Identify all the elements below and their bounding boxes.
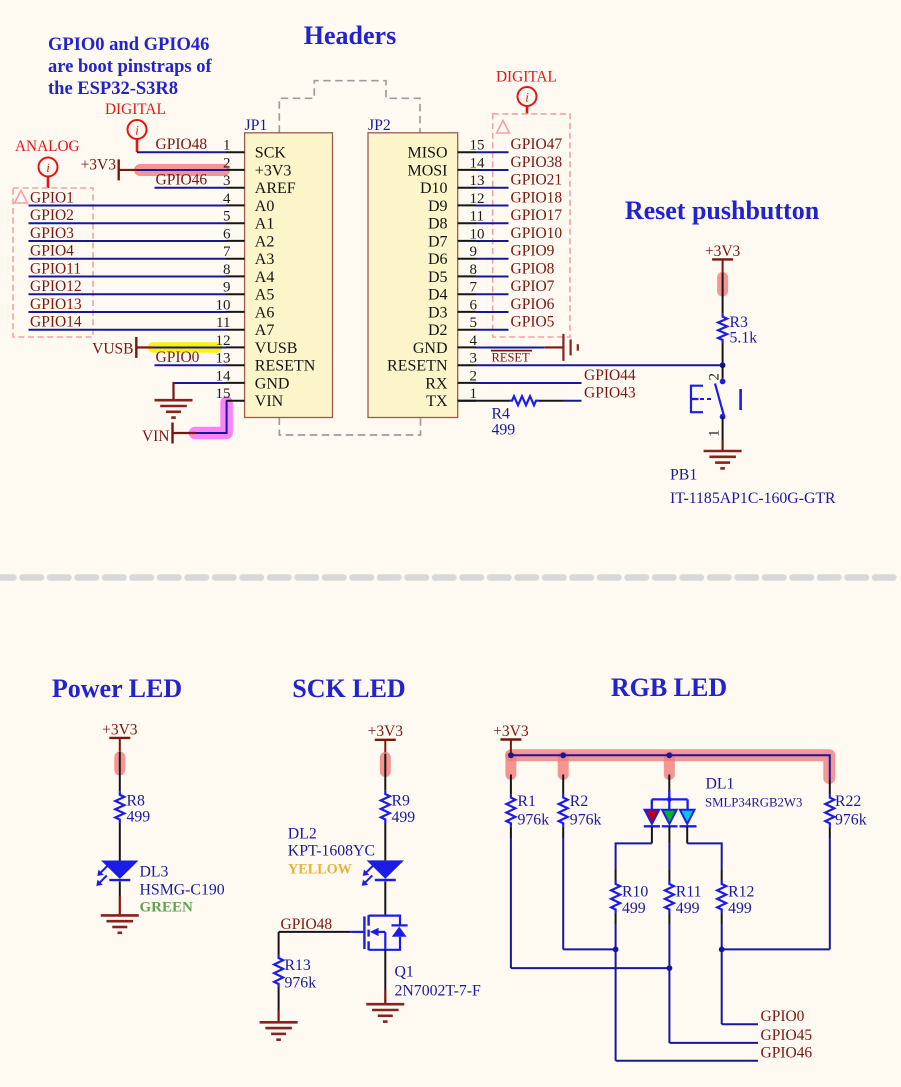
wire +3V3 to R9 — [384, 754, 386, 791]
svg-text:TX: TX — [426, 393, 448, 410]
wire green cathode to R11 — [668, 843, 670, 870]
svg-text:A3: A3 — [255, 251, 275, 268]
svg-text:976k: 976k — [518, 812, 550, 829]
wire R3 to junction — [722, 344, 724, 366]
svg-text:GPIO18: GPIO18 — [511, 189, 563, 206]
resistor R4 — [509, 396, 539, 405]
svg-text:2: 2 — [470, 368, 478, 384]
wire GPIO8 from JP2 pin8 — [476, 275, 509, 277]
svg-text:+3V3: +3V3 — [81, 156, 117, 173]
svg-text:Reset pushbutton: Reset pushbutton — [625, 196, 820, 225]
svg-text:GPIO2: GPIO2 — [30, 207, 74, 224]
svg-text:GPIO12: GPIO12 — [30, 278, 82, 295]
svg-text:A1: A1 — [255, 216, 275, 233]
wire ground stub dark red right — [545, 346, 563, 348]
svg-text:GPIO1: GPIO1 — [30, 189, 74, 206]
highlight yellow on VUSB wire pin12 JP1 — [153, 342, 217, 353]
svg-text:RESETN: RESETN — [255, 358, 316, 375]
wire R8 to DL3 — [119, 823, 121, 861]
svg-text:12: 12 — [470, 191, 485, 207]
svg-text:GPIO7: GPIO7 — [511, 278, 555, 295]
highlight pink on +3V3 stub power led — [114, 757, 125, 770]
svg-text:RGB LED: RGB LED — [611, 673, 727, 702]
wire GPIO5 from JP2 pin5 — [476, 329, 509, 331]
svg-text:VUSB: VUSB — [92, 340, 133, 357]
svg-text:A0: A0 — [255, 198, 275, 215]
wire GPIO44 from JP2 pin2 — [476, 382, 582, 384]
wire R10 down to GPIO46 row — [615, 924, 617, 1061]
svg-text:GPIO48: GPIO48 — [156, 136, 208, 153]
svg-text:GPIO4: GPIO4 — [30, 243, 74, 260]
wire junction to button pin2 — [722, 365, 724, 378]
wire top pin R10 — [615, 870, 617, 881]
svg-text:15: 15 — [216, 386, 231, 402]
junction R11/R1 node — [667, 965, 673, 971]
svg-text:D6: D6 — [428, 251, 448, 268]
wire blue cathode to R12 — [687, 843, 722, 870]
svg-text:GPIO48: GPIO48 — [281, 916, 333, 933]
wire R1 bottom pin — [510, 827, 512, 838]
JP2 pin names — [387, 145, 448, 411]
pink triangle marker left — [15, 191, 28, 204]
wire GPIO48 down to R13 — [278, 932, 280, 955]
wire R2 bottom pin — [562, 827, 564, 838]
svg-text:R4: R4 — [492, 406, 511, 423]
pink dashed box DIGITAL group — [493, 114, 570, 337]
svg-text:A2: A2 — [255, 233, 275, 250]
svg-text:JP2: JP2 — [368, 117, 391, 134]
svg-text:12: 12 — [216, 333, 231, 349]
svg-text:GPIO47: GPIO47 — [511, 136, 563, 153]
svg-text:KPT-1608YC: KPT-1608YC — [288, 843, 375, 860]
svg-text:RESET: RESET — [492, 351, 531, 365]
svg-text:GPIO0 and GPIO46: GPIO0 and GPIO46 — [48, 35, 209, 55]
wire R22 to R12 node — [722, 948, 830, 950]
section separator dashed line — [0, 574, 901, 581]
wire to ground dark red r13 — [278, 1010, 280, 1022]
svg-text:MOSI: MOSI — [407, 162, 447, 179]
svg-text:GPIO0: GPIO0 — [761, 1008, 805, 1025]
wire GPIO6 from JP2 pin6 — [476, 311, 509, 313]
wire +3V3 to R3 — [722, 273, 724, 313]
svg-text:VUSB: VUSB — [255, 340, 298, 357]
wire R1 horizontal to R11 node — [511, 967, 670, 969]
svg-text:RX: RX — [425, 375, 448, 392]
junction node R3/RESET/button — [720, 362, 726, 368]
wire R22 down to node — [829, 838, 831, 949]
wire GPIO46 horizontal — [616, 1060, 758, 1062]
wire DL1 green cathode stub — [668, 826, 670, 843]
ground symbol below Q1 — [366, 1003, 404, 1006]
highlight pink on +3V3 bus rgb — [511, 755, 829, 778]
wire GPIO4 to JP1 pin7 — [29, 258, 227, 260]
JP1 pin names — [255, 145, 316, 411]
resistor R9 — [381, 791, 390, 823]
svg-text:AREF: AREF — [255, 180, 296, 197]
wire DL1 blue cathode stub — [686, 826, 688, 843]
highlight pink stub R2 — [558, 757, 569, 775]
resistor R2 — [559, 794, 568, 827]
svg-text:Headers: Headers — [304, 21, 396, 50]
svg-text:MISO: MISO — [407, 145, 447, 162]
wire +3V3 to R8 — [119, 752, 121, 791]
svg-text:GPIO46: GPIO46 — [761, 1045, 813, 1062]
svg-text:HSMG-C190: HSMG-C190 — [140, 882, 225, 899]
svg-text:+3V3: +3V3 — [102, 721, 138, 738]
wire GPIO45 horizontal — [669, 1042, 758, 1044]
wire RESET net JP2 pin3 to pushbutton junction — [476, 364, 723, 366]
svg-text:Power LED: Power LED — [52, 674, 182, 703]
svg-text:GPIO38: GPIO38 — [511, 154, 563, 171]
svg-text:5.1k: 5.1k — [730, 330, 758, 347]
svg-text:A4: A4 — [255, 269, 275, 286]
wire GPIO48 to JP1 pin1 — [137, 151, 226, 153]
svg-text:GPIO3: GPIO3 — [30, 225, 74, 242]
svg-text:A6: A6 — [255, 304, 275, 321]
resistor R12 — [717, 881, 726, 913]
svg-text:R22: R22 — [835, 793, 861, 810]
svg-text:976k: 976k — [835, 812, 867, 829]
wire R22 bottom pin — [829, 827, 831, 838]
svg-text:IT-1185AP1C-160G-GTR: IT-1185AP1C-160G-GTR — [670, 490, 836, 507]
callout ANALOG — [15, 138, 80, 188]
svg-text:499: 499 — [127, 809, 151, 826]
svg-text:5: 5 — [470, 315, 478, 331]
wire DL2 cathode to Q1 drain — [384, 881, 386, 915]
svg-text:GND: GND — [413, 340, 448, 357]
svg-text:GPIO6: GPIO6 — [511, 296, 555, 313]
svg-text:SCK: SCK — [255, 145, 287, 162]
svg-text:DIGITAL: DIGITAL — [105, 101, 166, 118]
svg-text:GPIO21: GPIO21 — [511, 172, 563, 189]
callout DIGITAL left — [105, 101, 166, 152]
LED DL2 — [367, 860, 404, 878]
wire GPIO48 to Q1 gate — [279, 931, 351, 933]
wire R11 down to GPIO45 row — [668, 924, 670, 1043]
wire GPIO7 from JP2 pin7 — [476, 293, 509, 295]
svg-text:GPIO5: GPIO5 — [511, 314, 555, 331]
svg-text:GPIO11: GPIO11 — [30, 260, 81, 277]
svg-text:R3: R3 — [730, 314, 749, 331]
svg-text:D5: D5 — [428, 269, 448, 286]
highlight pink on +3V3 wire pin2 JP1 — [140, 164, 224, 176]
wire R2 to R10 node — [563, 948, 615, 950]
wire GPIO43 — [564, 400, 582, 402]
wire GPIO38 from JP2 pin14 — [476, 169, 509, 171]
svg-text:8: 8 — [470, 262, 478, 278]
callout DIGITAL right — [496, 69, 557, 114]
resistor R11 — [665, 881, 674, 913]
svg-text:14: 14 — [216, 368, 232, 384]
ground symbol below JP1 pin14 — [155, 399, 193, 402]
svg-text:GPIO10: GPIO10 — [511, 225, 563, 242]
svg-text:R2: R2 — [570, 793, 589, 810]
junction DL1 anode — [667, 797, 672, 802]
wire bottom pin R11 — [668, 913, 670, 924]
wire GPIO0 horizontal — [722, 1023, 758, 1025]
svg-text:1: 1 — [707, 430, 723, 438]
resistor R13 — [274, 955, 283, 988]
svg-text:SMLP34RGB2W3: SMLP34RGB2W3 — [705, 796, 802, 810]
svg-text:R8: R8 — [127, 793, 146, 810]
pink dashed box ANALOG group — [13, 188, 93, 337]
wire GPIO11 to JP1 pin8 — [29, 275, 227, 277]
wire to ground dark red q1 — [384, 990, 386, 1004]
LED DL3 — [101, 861, 138, 879]
wire red cathode to R10 — [616, 843, 652, 870]
svg-text:D7: D7 — [428, 233, 448, 250]
svg-text:2: 2 — [707, 373, 723, 381]
svg-text:i: i — [46, 160, 50, 175]
connector JP2 body — [368, 133, 458, 418]
wire TX black segment to R4 — [458, 400, 509, 402]
svg-text:A5: A5 — [255, 287, 275, 304]
wire R13 to ground — [278, 988, 280, 1011]
wire VUSB to JP1 pin12 — [152, 346, 226, 348]
JP2 pin numbers 15-1 — [470, 138, 486, 403]
resistor R10 — [611, 881, 620, 913]
svg-text:PB1: PB1 — [670, 467, 697, 484]
svg-text:VIN: VIN — [142, 428, 170, 445]
wire +3V3 to JP1 pin2 — [137, 169, 226, 171]
svg-text:499: 499 — [728, 900, 752, 917]
junction bus R2 — [560, 752, 566, 758]
wire DL3 cathode down — [119, 882, 121, 897]
wire bus to R2 — [562, 775, 564, 795]
JP1 pin numbers 1-15 — [216, 138, 232, 403]
svg-text:the ESP32-S3R8: the ESP32-S3R8 — [48, 79, 178, 99]
svg-text:i: i — [525, 90, 529, 105]
LED DL1 blue element — [680, 810, 695, 824]
svg-text:GPIO14: GPIO14 — [30, 314, 82, 331]
wire JP2 pin4 GND — [476, 346, 545, 348]
svg-text:DL2: DL2 — [288, 826, 317, 843]
svg-text:D3: D3 — [428, 304, 448, 321]
connector JP1 body — [245, 133, 333, 418]
svg-text:RESETN: RESETN — [387, 358, 448, 375]
wire GPIO17 from JP2 pin11 — [476, 222, 509, 224]
pink triangle marker right — [497, 121, 510, 134]
wire +3V3 stub dark red — [119, 169, 137, 171]
wire top pin R11 — [668, 870, 670, 881]
svg-text:GPIO8: GPIO8 — [511, 260, 555, 277]
JP1 pin stubs 1-15 — [226, 152, 245, 401]
svg-text:6: 6 — [470, 297, 478, 313]
svg-text:DL1: DL1 — [706, 776, 735, 793]
highlight pink stub DL1 — [664, 757, 675, 775]
transistor Q1 MOSFET — [350, 915, 407, 950]
svg-text:GPIO17: GPIO17 — [511, 207, 563, 224]
svg-text:JP1: JP1 — [245, 117, 268, 134]
wire DL1 red cathode stub — [651, 826, 653, 843]
junction bus DL1 — [666, 752, 672, 758]
wire to ground dark red — [721, 440, 723, 451]
svg-text:R10: R10 — [622, 884, 648, 901]
wire R4 right black pin — [539, 400, 564, 402]
svg-text:R11: R11 — [676, 884, 702, 901]
junction R10/R2 node — [613, 947, 619, 953]
wire bottom pin R12 — [721, 913, 723, 924]
wire R12 down to GPIO0 row — [721, 924, 723, 1024]
svg-text:D8: D8 — [428, 216, 448, 233]
svg-text:8: 8 — [223, 262, 231, 278]
LED DL1 red element — [645, 810, 660, 824]
svg-text:R9: R9 — [392, 793, 411, 810]
wire R9 to DL2 — [384, 823, 386, 860]
resistor R1 — [506, 794, 515, 827]
svg-text:499: 499 — [392, 809, 416, 826]
svg-text:10: 10 — [216, 297, 231, 313]
svg-text:+3V3: +3V3 — [493, 723, 529, 740]
wire R2 down to node — [562, 838, 564, 949]
svg-text:6: 6 — [223, 226, 231, 242]
wire GPIO21 from JP2 pin13 — [476, 187, 509, 189]
svg-text:D4: D4 — [428, 287, 448, 304]
resistor R22 — [825, 794, 834, 827]
svg-text:DL3: DL3 — [140, 864, 169, 881]
svg-text:3: 3 — [470, 351, 478, 367]
highlight pink stub R1 — [505, 757, 516, 775]
note text boot pinstraps — [48, 35, 212, 99]
svg-text:499: 499 — [622, 900, 646, 917]
LED DL1 common anode rail — [668, 790, 670, 799]
ground symbol power led — [101, 914, 139, 917]
svg-text:+3V3: +3V3 — [368, 723, 404, 740]
wire GPIO9 from JP2 pin9 — [476, 258, 509, 260]
svg-text:976k: 976k — [570, 812, 602, 829]
wire GPIO3 to JP1 pin6 — [29, 240, 227, 242]
svg-text:4: 4 — [470, 333, 478, 349]
svg-text:GPIO0: GPIO0 — [156, 349, 200, 366]
svg-text:VIN: VIN — [255, 393, 284, 410]
wire GPIO13 to JP1 pin10 — [29, 311, 227, 313]
junction bus R1 — [508, 752, 514, 758]
svg-text:R13: R13 — [285, 957, 311, 974]
JP2 pin stubs 15-1 — [458, 152, 476, 401]
svg-text:A7: A7 — [255, 322, 275, 339]
wire +3V3 bus rgb — [511, 754, 830, 781]
svg-text:YELLOW: YELLOW — [288, 862, 352, 878]
wire bottom pin R10 — [615, 913, 617, 924]
svg-text:10: 10 — [470, 226, 485, 242]
wire button pin1 down — [722, 417, 724, 440]
svg-text:i: i — [135, 123, 139, 138]
wire bus to R22 — [829, 780, 831, 794]
pushbutton PB1 — [691, 379, 741, 420]
wire R1 down to node — [510, 838, 512, 968]
wire to ground dark red power led — [119, 897, 121, 916]
wire GPIO10 from JP2 pin10 — [476, 240, 509, 242]
ground symbol rotated at JP2 pin4 — [562, 334, 564, 361]
resistor R8 — [115, 791, 124, 823]
svg-text:2N7002T-7-F: 2N7002T-7-F — [395, 983, 482, 1000]
svg-text:GPIO44: GPIO44 — [584, 367, 636, 384]
junction R12/R22 node — [719, 947, 725, 953]
svg-text:9: 9 — [470, 244, 478, 260]
svg-text:GPIO9: GPIO9 — [511, 243, 555, 260]
highlight pink on R3 +3V3 stub — [717, 278, 728, 292]
svg-text:ANALOG: ANALOG — [15, 138, 80, 155]
wire GPIO12 to JP1 pin9 — [29, 293, 227, 295]
svg-text:GREEN: GREEN — [140, 900, 194, 916]
wire GPIO14 to JP1 pin11 — [29, 329, 227, 331]
wire bus to R1 — [510, 775, 512, 795]
wire GPIO47 from JP2 pin15 — [476, 151, 509, 153]
svg-text:Q1: Q1 — [395, 964, 414, 981]
ground symbol below R13 — [260, 1021, 298, 1024]
wire top pin R12 — [721, 870, 723, 881]
svg-text:GPIO46: GPIO46 — [156, 172, 208, 189]
resistor R3 — [718, 313, 727, 343]
svg-text:499: 499 — [492, 422, 516, 439]
wire bus to DL1 anode — [668, 775, 670, 793]
ground symbol below PB1 — [704, 450, 742, 453]
svg-text:D2: D2 — [428, 322, 448, 339]
wire GPIO1 to JP1 pin4 — [29, 204, 227, 206]
svg-text:976k: 976k — [285, 975, 317, 992]
wire GPIO0 to JP1 pin13 — [155, 364, 227, 366]
svg-text:14: 14 — [470, 155, 486, 171]
svg-text:+3V3: +3V3 — [255, 162, 292, 179]
wire ground stub dark red — [172, 382, 174, 400]
grey dashed bracket linking JP1 and JP2 bottom — [279, 418, 420, 436]
svg-text:GND: GND — [255, 375, 290, 392]
wire GPIO2 to JP1 pin5 — [29, 222, 227, 224]
svg-text:D9: D9 — [428, 198, 448, 215]
svg-text:499: 499 — [676, 900, 700, 917]
svg-text:4: 4 — [223, 191, 231, 207]
svg-text:2: 2 — [223, 155, 231, 171]
svg-text:R1: R1 — [518, 793, 536, 810]
svg-text:+3V3: +3V3 — [705, 243, 741, 260]
grey dashed bracket linking JP1 and JP2 top — [279, 81, 420, 133]
highlight pink on +3V3 stub sck led — [380, 758, 391, 772]
wire Q1 source down — [384, 950, 386, 990]
svg-text:are boot pinstraps of: are boot pinstraps of — [48, 57, 212, 77]
svg-text:SCK LED: SCK LED — [292, 674, 405, 703]
wire GPIO46 to JP1 pin3 — [155, 187, 227, 189]
LED DL1 green element — [662, 810, 677, 824]
highlight magenta on VIN wire pin15 JP1 — [195, 403, 227, 434]
svg-text:GPIO43: GPIO43 — [584, 385, 636, 402]
wire VUSB stub dark red — [136, 346, 152, 348]
svg-text:DIGITAL: DIGITAL — [496, 69, 557, 86]
svg-text:D10: D10 — [420, 180, 448, 197]
wire GPIO18 from JP2 pin12 — [476, 204, 509, 206]
svg-text:R12: R12 — [728, 884, 754, 901]
wire JP1 pin14 to ground — [174, 382, 227, 384]
svg-text:GPIO45: GPIO45 — [761, 1027, 813, 1044]
wire VIN L-shape from JP1 pin15 — [195, 401, 227, 433]
svg-text:GPIO13: GPIO13 — [30, 296, 82, 313]
wire VIN stub dark red — [173, 432, 197, 434]
